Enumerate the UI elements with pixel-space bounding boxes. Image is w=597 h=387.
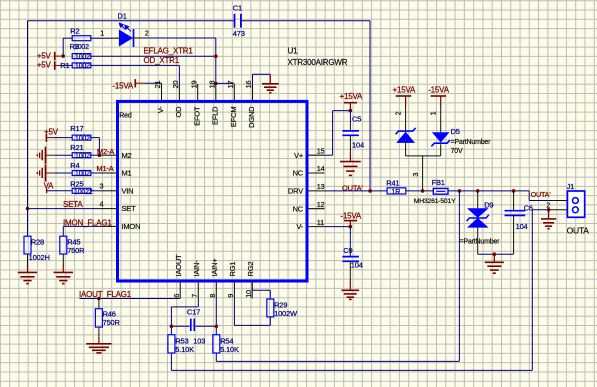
svg-text:M1-A: M1-A <box>96 164 113 173</box>
svg-text:VIN: VIN <box>122 186 134 195</box>
svg-text:=PartNumber: =PartNumber <box>460 239 500 246</box>
svg-text:4: 4 <box>100 199 104 208</box>
svg-text:V-: V- <box>296 222 303 231</box>
svg-text:12: 12 <box>317 200 325 209</box>
svg-text:+15VA: +15VA <box>393 86 417 95</box>
svg-text:1002: 1002 <box>75 153 90 160</box>
svg-text:104: 104 <box>351 260 363 269</box>
svg-text:R41: R41 <box>386 178 399 187</box>
svg-text:1002: 1002 <box>75 54 90 61</box>
svg-text:OUTA: OUTA <box>567 225 590 235</box>
svg-text:15: 15 <box>317 146 325 155</box>
svg-text:D1: D1 <box>118 12 127 21</box>
svg-text:104: 104 <box>516 222 528 231</box>
svg-text:U1: U1 <box>288 47 299 56</box>
svg-text:104: 104 <box>352 141 364 150</box>
svg-text:R1: R1 <box>60 61 69 70</box>
svg-text:R2: R2 <box>70 26 79 35</box>
svg-text:C1: C1 <box>233 3 242 12</box>
svg-text:Red: Red <box>119 112 132 119</box>
svg-text:=PartNumber: =PartNumber <box>451 139 491 146</box>
svg-text:6: 6 <box>172 294 181 298</box>
svg-text:7: 7 <box>190 294 199 298</box>
svg-text:103: 103 <box>193 336 205 345</box>
svg-text:19: 19 <box>189 81 198 89</box>
svg-text:11: 11 <box>317 218 324 227</box>
svg-text:+15VA: +15VA <box>340 92 364 101</box>
svg-text:IAIN-: IAIN- <box>192 260 201 277</box>
svg-text:17: 17 <box>226 81 235 89</box>
svg-text:R25: R25 <box>70 179 83 188</box>
svg-text:20: 20 <box>171 81 180 89</box>
svg-text:10022: 10022 <box>74 189 93 196</box>
svg-text:EFOT: EFOT <box>192 106 201 126</box>
svg-text:3: 3 <box>413 173 420 177</box>
svg-text:OUTA': OUTA' <box>531 190 552 199</box>
svg-text:8: 8 <box>208 294 217 298</box>
svg-text:1002: 1002 <box>75 135 90 142</box>
svg-text:18: 18 <box>207 81 216 89</box>
svg-text:3: 3 <box>100 182 104 191</box>
svg-text:D9: D9 <box>484 200 493 209</box>
svg-text:SETA: SETA <box>63 200 83 209</box>
svg-text:IAIN+: IAIN+ <box>210 258 219 277</box>
svg-text:EFCM: EFCM <box>229 107 238 127</box>
svg-text:DRV: DRV <box>288 187 303 196</box>
svg-text:9: 9 <box>226 294 235 298</box>
svg-text:MH3261-501Y: MH3261-501Y <box>414 198 456 205</box>
svg-text:V-: V- <box>156 106 165 113</box>
svg-text:VA: VA <box>44 182 55 191</box>
svg-text:C5: C5 <box>352 115 361 124</box>
svg-text:1002: 1002 <box>74 44 89 51</box>
svg-text:IAOUT_FLAG1: IAOUT_FLAG1 <box>79 290 132 299</box>
svg-text:1002: 1002 <box>75 171 90 178</box>
svg-text:IAOUT: IAOUT <box>174 254 183 277</box>
svg-text:13: 13 <box>317 182 325 191</box>
svg-text:R46: R46 <box>103 309 116 318</box>
svg-text:XTR300AIRGWR: XTR300AIRGWR <box>288 58 348 67</box>
svg-text:M2: M2 <box>122 151 132 160</box>
svg-text:1002: 1002 <box>75 63 90 70</box>
svg-text:NC: NC <box>293 169 304 178</box>
svg-text:1R: 1R <box>392 189 401 196</box>
svg-text:2: 2 <box>546 202 550 209</box>
svg-text:OD: OD <box>174 106 183 118</box>
svg-text:16: 16 <box>244 81 253 89</box>
svg-text:5.10K: 5.10K <box>175 345 194 354</box>
svg-text:14: 14 <box>317 164 325 173</box>
svg-text:-15VA: -15VA <box>428 86 450 95</box>
svg-text:1: 1 <box>431 111 438 115</box>
svg-text:DGND: DGND <box>247 106 256 128</box>
svg-text:750R: 750R <box>103 318 121 327</box>
svg-text:R17: R17 <box>70 124 83 133</box>
svg-text:FB1: FB1 <box>432 178 445 187</box>
svg-text:2: 2 <box>145 31 149 38</box>
svg-text:M1: M1 <box>122 169 132 178</box>
svg-text:EFLAG_XTR1: EFLAG_XTR1 <box>144 47 194 56</box>
svg-text:EFLD: EFLD <box>210 106 219 125</box>
svg-text:R28: R28 <box>31 237 44 246</box>
svg-text:RG1: RG1 <box>228 262 237 277</box>
svg-text:IMON: IMON <box>122 222 141 231</box>
svg-text:OUTA': OUTA' <box>342 183 363 192</box>
svg-text:NC: NC <box>293 204 304 213</box>
svg-text:C9: C9 <box>343 246 352 255</box>
svg-text:1002W: 1002W <box>274 309 298 318</box>
svg-text:10: 10 <box>244 290 253 298</box>
svg-text:V+: V+ <box>294 151 304 160</box>
svg-text:2: 2 <box>395 111 402 115</box>
svg-text:473: 473 <box>233 29 245 38</box>
svg-text:5.10K: 5.10K <box>220 345 239 354</box>
svg-text:21: 21 <box>153 81 162 89</box>
svg-text:RG2: RG2 <box>246 262 255 277</box>
svg-text:C17: C17 <box>187 307 200 316</box>
svg-text:750R: 750R <box>67 246 85 255</box>
svg-text:R4: R4 <box>70 161 79 170</box>
svg-text:J1: J1 <box>567 182 575 191</box>
svg-text:D5: D5 <box>451 127 460 136</box>
svg-text:-15VA: -15VA <box>112 82 134 91</box>
svg-text:M2-A: M2-A <box>97 147 114 156</box>
svg-text:70V: 70V <box>451 148 463 155</box>
svg-text:+5V: +5V <box>37 51 52 60</box>
svg-text:1002H: 1002H <box>29 253 50 262</box>
svg-text:1: 1 <box>100 31 104 38</box>
svg-text:C6: C6 <box>524 203 533 212</box>
svg-text:+5V: +5V <box>37 61 52 70</box>
svg-text:OD_XTR1: OD_XTR1 <box>144 56 180 65</box>
svg-text:R21: R21 <box>70 143 83 152</box>
svg-text:SET: SET <box>122 204 137 213</box>
svg-text:-15VA: -15VA <box>340 212 362 221</box>
